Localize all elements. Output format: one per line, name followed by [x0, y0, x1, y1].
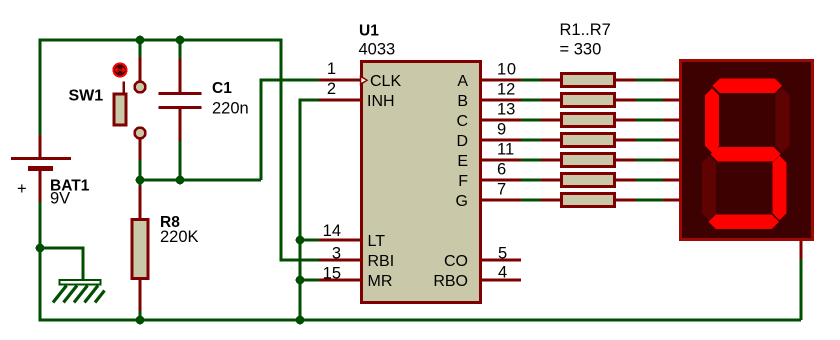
switch SW1 — [69, 57, 146, 160]
resistor R7 — [541, 194, 636, 207]
svg-text:U1: U1 — [359, 23, 379, 40]
svg-text:INH: INH — [367, 93, 395, 110]
svg-text:1: 1 — [327, 60, 336, 78]
wire switch bottom — [139, 159, 142, 180]
svg-text:LT: LT — [368, 233, 386, 250]
svg-text:R1..R7: R1..R7 — [560, 21, 611, 39]
pin RBI 3 — [319, 245, 394, 271]
resistor R6 — [541, 174, 636, 187]
svg-text:MR: MR — [368, 273, 393, 290]
svg-text:G: G — [456, 193, 468, 210]
wire row F — [521, 179, 541, 182]
svg-text:4033: 4033 — [359, 41, 396, 59]
wire LT stub — [300, 239, 319, 242]
wire row C — [521, 119, 541, 122]
node dot rail/R8 — [136, 316, 145, 325]
7-segment display body — [681, 61, 813, 240]
wire INH run — [300, 100, 319, 320]
pin INH 2 — [319, 80, 395, 110]
resistor R5 — [541, 154, 636, 167]
IC U1 (4033 counter) — [359, 23, 481, 303]
top contact — [135, 82, 146, 93]
svg-text:220K: 220K — [160, 228, 199, 246]
pin C 13 — [456, 101, 521, 130]
pole plate — [114, 94, 126, 125]
wire switch top — [139, 40, 142, 58]
battery BAT1 — [11, 135, 90, 208]
svg-text:9: 9 — [497, 121, 506, 139]
wire row B — [521, 99, 541, 102]
resistor R3 — [541, 114, 636, 127]
svg-text:10: 10 — [497, 61, 516, 79]
pin A 10 — [457, 61, 521, 90]
svg-text:= 330: = 330 — [560, 41, 602, 59]
wire CLK run — [261, 80, 319, 180]
pin D 9 — [456, 121, 521, 150]
svg-text:13: 13 — [497, 101, 515, 119]
node dot node wire / switch — [136, 176, 145, 185]
top lead — [139, 57, 142, 82]
node dot rail/INH — [296, 316, 305, 325]
pin F 6 — [458, 161, 521, 190]
wire R8 top — [139, 180, 142, 187]
plunger stem — [122, 81, 125, 95]
resistor R8 — [132, 186, 199, 311]
node dot battery-ground — [36, 244, 45, 253]
pin MR 15 — [319, 265, 392, 291]
svg-text:220n: 220n — [212, 100, 249, 118]
pin G 7 — [456, 181, 521, 210]
bottom contact — [135, 128, 146, 139]
pin E 11 — [457, 141, 521, 170]
svg-text:RBI: RBI — [368, 253, 395, 270]
wire row D — [521, 139, 541, 142]
svg-text:C: C — [456, 113, 468, 130]
pin RBO 4 — [433, 264, 521, 291]
resistor R4 — [541, 134, 636, 147]
svg-text:E: E — [457, 153, 468, 170]
wire row E — [521, 159, 541, 162]
svg-text:CO: CO — [444, 253, 468, 270]
svg-text:F: F — [458, 173, 468, 190]
pin LT 14 — [319, 222, 385, 250]
svg-text:+: + — [17, 180, 27, 198]
wire cap bottom — [179, 140, 182, 180]
display pins A-G — [663, 80, 680, 200]
svg-text:6: 6 — [497, 161, 506, 179]
wire row G — [521, 199, 541, 202]
bottom lead — [139, 138, 142, 160]
svg-text:A: A — [457, 73, 468, 90]
node dot node wire / cap — [176, 176, 185, 185]
pin CO 5 — [444, 245, 521, 271]
segment E (unlit) — [702, 156, 716, 220]
segment A (lit) — [713, 79, 783, 93]
svg-text:3: 3 — [332, 245, 341, 263]
wire battery bottom — [39, 201, 42, 322]
wire battery top — [39, 39, 42, 137]
svg-text:5: 5 — [498, 245, 507, 263]
svg-text:9V: 9V — [50, 190, 70, 208]
pin CLK 1 — [319, 60, 401, 90]
svg-text:11: 11 — [497, 141, 514, 159]
svg-text:D: D — [456, 133, 468, 150]
wire row A — [521, 79, 541, 82]
wire R8 bottom — [139, 310, 142, 320]
ground — [53, 280, 105, 303]
svg-text:CLK: CLK — [370, 73, 401, 90]
wire display common — [800, 258, 803, 320]
svg-text:2: 2 — [327, 80, 336, 98]
wire ground stub — [40, 248, 83, 281]
svg-text:RBO: RBO — [433, 273, 468, 290]
capacitor C1 — [159, 59, 249, 141]
svg-text:SW1: SW1 — [69, 88, 104, 105]
svg-text:7: 7 — [497, 181, 506, 199]
segment D (lit) — [709, 215, 779, 229]
node dot MR — [296, 276, 305, 285]
svg-text:12: 12 — [497, 81, 515, 99]
node dot top rail / cap — [176, 36, 185, 45]
wire bottom rail — [39, 319, 802, 322]
resistor R2 — [541, 94, 636, 107]
wire node (switch/cap/R8 top) — [140, 179, 261, 182]
segment G (lit) — [711, 147, 781, 161]
segment B (unlit) — [776, 88, 790, 153]
svg-text:14: 14 — [323, 222, 341, 240]
svg-text:4: 4 — [498, 264, 507, 282]
node dot top rail / switch — [136, 36, 145, 45]
segment C (lit) — [773, 156, 787, 220]
node dot LT — [296, 236, 305, 245]
svg-text:15: 15 — [323, 265, 341, 283]
svg-text:B: B — [457, 93, 468, 110]
segment F (lit) — [705, 88, 719, 153]
pin B 12 — [457, 81, 521, 110]
wire MR stub — [300, 279, 319, 282]
wire RBI run (VDD) — [281, 39, 319, 261]
actuator — [113, 63, 126, 76]
resistor R1 — [541, 74, 636, 87]
wire top rail — [40, 39, 281, 42]
wire cap top — [179, 40, 182, 60]
svg-text:C1: C1 — [212, 80, 232, 97]
display common pin — [800, 241, 803, 259]
clock symbol — [360, 75, 369, 86]
